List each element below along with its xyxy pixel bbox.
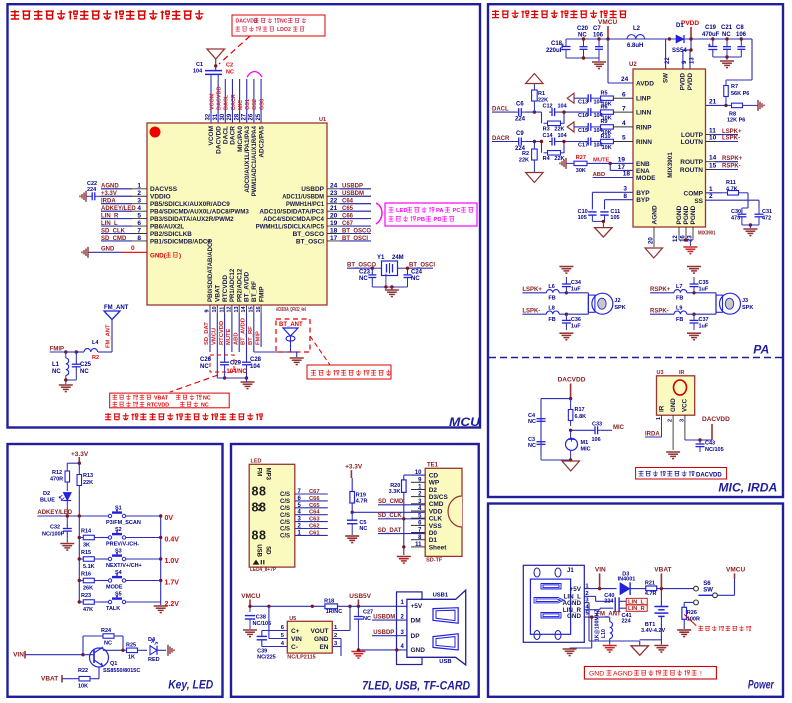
svg-text:R22: R22: [78, 668, 88, 674]
svg-text:J3: J3: [742, 298, 748, 304]
top net label OS3: [259, 99, 265, 110]
capacitor C37 1uF: [690, 314, 709, 330]
svg-text:ADC2/PA5: ADC2/PA5: [258, 126, 265, 158]
junction dots FMIP node: [64, 350, 78, 353]
svg-text:PB2/SDICLKB: PB2/SDICLKB: [150, 231, 192, 238]
PA chip U2 MIX3901 body: [633, 69, 706, 227]
svg-text:32: 32: [206, 113, 212, 120]
svg-text:VIN: VIN: [13, 652, 24, 659]
U1 left pin 7 name PB2/SDICLKB: [150, 231, 192, 238]
boxed net label LIN_R: [626, 605, 647, 612]
top net label VCOM: [209, 93, 215, 110]
svg-text:C34: C34: [571, 280, 582, 286]
diode D3 IN4001: [618, 571, 636, 595]
AGND row wire: [584, 603, 639, 646]
svg-text:OS1: OS1: [245, 99, 251, 110]
svg-text:R9: R9: [601, 119, 608, 125]
TE1 pin 2 D3/CS: [411, 492, 449, 501]
svg-text:6: 6: [622, 91, 626, 98]
svg-text:Sheet: Sheet: [429, 544, 448, 551]
svg-text:7: 7: [137, 227, 141, 234]
svg-text:BT_OSCO: BT_OSCO: [342, 228, 371, 234]
svg-text:U3: U3: [657, 370, 664, 376]
svg-text:VIN: VIN: [595, 566, 606, 573]
svg-text:L1: L1: [52, 362, 60, 368]
U1 top pin 30 name DACL: [223, 126, 230, 144]
capacitor C13 104 LINP: [578, 94, 604, 105]
svg-text:24: 24: [621, 76, 629, 83]
capacitor C9 224: [515, 131, 526, 152]
label 7LED USB TF-CARD: [362, 681, 470, 693]
LED pin 5 net C65: [280, 503, 328, 512]
svg-text:1R/NC: 1R/NC: [326, 609, 343, 615]
resistor R9 10K: [594, 119, 614, 136]
VMCU rail wire: [248, 605, 325, 608]
svg-text:AVDD: AVDD: [636, 81, 654, 88]
section box 7LED USB TF-CARD: [231, 444, 479, 697]
svg-text:NC: NC: [80, 369, 89, 375]
USB label bottom: [439, 659, 451, 665]
LED pin 2 net C62: [280, 524, 328, 533]
svg-text:RSPK+: RSPK+: [722, 156, 743, 162]
svg-text:1: 1: [656, 417, 662, 420]
capacitor C43 NC/105: [673, 440, 724, 453]
TE1 pin 9 WP: [411, 477, 440, 486]
svg-text:AGND: AGND: [101, 184, 119, 190]
svg-text:1uF: 1uF: [571, 324, 581, 330]
svg-text:3: 3: [137, 198, 141, 205]
U1 top pin 26 number: [249, 113, 255, 120]
sideways ground D4: [168, 645, 174, 656]
wire pin9 SD_DAT down: [209, 313, 211, 352]
svg-text:VDDIO: VDDIO: [150, 194, 171, 201]
U1 bottom pin 15 name BT_RF: [251, 281, 258, 302]
svg-text:VCOM: VCOM: [209, 93, 215, 110]
J1 refdes: [567, 568, 574, 574]
U2 vertical chip name MIX3901: [667, 152, 674, 178]
U1 top pin 27 name ADC0/AUX1L/PA1/PA3: [244, 126, 251, 193]
svg-text:224: 224: [604, 599, 614, 605]
U2 pin 15 ROUTN / net RSPK-: [680, 163, 741, 175]
svg-text:PD: PD: [434, 217, 442, 223]
svg-text:C36: C36: [571, 317, 581, 323]
net flag USB5V: [349, 593, 371, 608]
top wire vertical net OS3: [260, 79, 262, 123]
svg-text:15: 15: [249, 306, 255, 312]
svg-text:11: 11: [219, 307, 225, 313]
svg-text:NC: NC: [104, 641, 112, 647]
note box DACVDD capacitor NC: [232, 15, 325, 36]
svg-text:R5: R5: [601, 91, 608, 97]
svg-text:): ): [179, 253, 181, 260]
svg-text:MP3: MP3: [264, 468, 270, 481]
svg-text:1.0V: 1.0V: [165, 558, 180, 565]
U1 right pin 19 name PWMH1L/SDICLKA/PC5: [256, 223, 325, 230]
LED D4 RED: [141, 637, 166, 663]
svg-text:12: 12: [227, 306, 233, 312]
svg-text:BT_AVDD: BT_AVDD: [241, 318, 247, 345]
junction +3.3V key: [78, 462, 81, 465]
U3 pin names IR GND VCC: [659, 398, 689, 412]
junction dots crystal: [371, 267, 410, 270]
capacitor C11 105: [600, 209, 620, 221]
svg-text:R26: R26: [687, 610, 697, 616]
U1 left pin 5 name PB3/SDIDATA/AUX2R/PWM2: [150, 216, 234, 223]
junction after C12: [558, 110, 586, 113]
svg-text:RTCVDD: RTCVDD: [219, 321, 225, 345]
LED display 7seg digits row2: [252, 501, 267, 515]
U2 pin 1 COMP resistor R11 4.7K: [684, 180, 749, 197]
net label IRDA: [645, 432, 662, 438]
svg-text:R17: R17: [575, 407, 585, 413]
svg-text:R24: R24: [101, 628, 112, 634]
voltage label 1.0V: [165, 558, 180, 565]
svg-text:R21: R21: [645, 581, 655, 587]
left branch wire to R12: [67, 463, 79, 467]
wire left branch: [541, 399, 571, 455]
svg-text:R12: R12: [52, 470, 62, 476]
svg-text:31: 31: [213, 113, 219, 120]
capacitor C1 104 C2 NC: [193, 62, 234, 80]
svg-text:LED: LED: [251, 459, 262, 465]
USB1 pin names: [411, 603, 426, 654]
U1 right pin 23 wire / net USBDM: [327, 190, 371, 197]
ground BT1: [654, 646, 668, 653]
resistor R23 47K: [79, 593, 108, 613]
capacitor C6 224: [515, 102, 526, 123]
U5 pin names: [291, 628, 329, 651]
speaker J3 SPK: [694, 293, 753, 314]
USB1 refdes: [433, 593, 449, 599]
svg-text:0V: 0V: [165, 515, 174, 522]
U1 right pin 19 wire / net C67: [327, 220, 371, 227]
resistor R6 10K: [594, 105, 614, 122]
capacitor C39 labels: [257, 649, 276, 661]
svg-text:PB6/AUX2L: PB6/AUX2L: [150, 223, 184, 230]
svg-text:3.3K: 3.3K: [389, 489, 401, 495]
svg-text:R14: R14: [81, 529, 92, 535]
switch S1 P3/FM_SCAN: [106, 506, 161, 527]
net flag PVDD top PA: [681, 20, 699, 39]
svg-text:NC: NC: [226, 70, 234, 76]
svg-text:1uF: 1uF: [699, 287, 709, 293]
svg-text:LIN_R: LIN_R: [628, 606, 646, 612]
svg-text:AC6926A_QFN32_4x4: AC6926A_QFN32_4x4: [276, 307, 306, 313]
svg-text:CMD: CMD: [429, 501, 444, 508]
svg-text:NC: NC: [280, 19, 288, 25]
svg-text:C35: C35: [699, 280, 709, 286]
capacitor C22 on +3.3V: [87, 181, 101, 200]
COMP node down: [742, 193, 748, 208]
U1 bottom pin 10 name VBAT: [215, 285, 222, 302]
U2 pin 2 SS wire: [694, 193, 759, 208]
svg-text:+3.3V: +3.3V: [101, 191, 117, 197]
svg-text:PB0/SDIDATAB/ADC5: PB0/SDIDATAB/ADC5: [207, 239, 214, 302]
J1 slot bottom: [541, 613, 561, 619]
U2 pin 19 ENB: [618, 157, 650, 168]
svg-text:R7: R7: [731, 84, 738, 90]
svg-text:12: 12: [673, 235, 679, 242]
LED display FM MP3 vertical: [256, 468, 271, 481]
svg-text:C/S: C/S: [280, 534, 290, 540]
svg-text:11: 11: [415, 542, 422, 548]
capacitor C20 NC: [577, 26, 589, 58]
inductor L7 FB: [674, 284, 694, 302]
net label SD_CLK wire: [378, 513, 426, 519]
svg-text:ADC0/AUX1L/PA1/PA3: ADC0/AUX1L/PA1/PA3: [244, 126, 251, 193]
svg-text:20: 20: [330, 212, 338, 219]
svg-text:OS2: OS2: [252, 99, 258, 110]
PA section red title: gongfang duan wuliao genju shiji dianlu qu jingjian: [492, 10, 626, 18]
U1 refdes: [319, 117, 326, 123]
resistor R15 5.1K: [79, 550, 108, 570]
svg-text:AGND: AGND: [562, 600, 581, 607]
svg-text:Q1: Q1: [110, 661, 117, 667]
J1 pin numbers: [585, 583, 589, 616]
resistor R2 22K vertical below: [519, 142, 537, 173]
LED pin 3 net C63: [280, 517, 328, 526]
U1 top pin 32 number: [206, 113, 212, 120]
svg-text:RSPK+: RSPK+: [650, 287, 671, 293]
junction after C14: [540, 140, 586, 143]
svg-text:C1: C1: [196, 62, 203, 68]
svg-text:1uF: 1uF: [571, 287, 581, 293]
svg-text:PB5/SDICLK/AUX0R/ADC9: PB5/SDICLK/AUX0R/ADC9: [150, 201, 230, 208]
svg-text:IRDA: IRDA: [101, 199, 116, 205]
capacitor C30 473: [731, 208, 746, 225]
svg-text:LDO2: LDO2: [277, 27, 291, 33]
U1 top pin 26 name PWM1/ADC1/AUX1R/PA4: [251, 126, 258, 197]
wire USBDP row: [372, 635, 407, 637]
svg-text:MIC, IRDA: MIC, IRDA: [718, 483, 777, 495]
U2 pin 17 ENA: [636, 168, 650, 175]
net label BT_OSCI right: [408, 262, 436, 268]
resistor R26 100R: [682, 607, 700, 629]
U1 pin 8 wire / net SD_CMD: [101, 235, 147, 242]
svg-text:PGND: PGND: [683, 205, 690, 224]
svg-text:224: 224: [622, 619, 632, 625]
wire USB GND row to C27 ground: [357, 648, 407, 651]
svg-text:C38: C38: [256, 614, 266, 620]
red bold bottom note: jiema ban fangan anjian...: [105, 413, 262, 420]
svg-text:LED4_8+7P: LED4_8+7P: [250, 567, 276, 573]
GND drop to J1 ground: [570, 617, 592, 648]
wire pin16 FMIP down: [260, 313, 262, 347]
svg-text:3: 3: [679, 419, 685, 422]
svg-text:COMP: COMP: [684, 190, 704, 197]
net flag VMCU 7led: [241, 593, 260, 606]
U1 bottom pin 11 stub / net RTCVDD: [219, 305, 225, 313]
svg-text:SPK: SPK: [742, 305, 753, 311]
svg-text:SD_DAT: SD_DAT: [378, 528, 402, 534]
svg-text:DACVDD: DACVDD: [215, 126, 222, 154]
red dashed pointer to BT note: [310, 336, 330, 365]
svg-text:C26: C26: [200, 357, 212, 363]
BT_ANT label: [279, 322, 303, 328]
svg-text:VMCU: VMCU: [241, 593, 260, 600]
svg-text:DP: DP: [411, 633, 421, 640]
svg-text:PB3/SDIDATA/AUX2R/PWM2: PB3/SDIDATA/AUX2R/PWM2: [150, 216, 234, 223]
svg-text:C+: C+: [291, 628, 300, 635]
svg-text:4: 4: [622, 120, 626, 127]
svg-text:GND: GND: [411, 647, 426, 654]
resistor R4 22K bridge below: [542, 142, 565, 163]
svg-text:Y1: Y1: [377, 255, 385, 261]
svg-text:C65: C65: [342, 206, 354, 212]
svg-text:4.7R: 4.7R: [356, 498, 368, 504]
svg-text:USBDM: USBDM: [342, 191, 364, 197]
LED pin 1 net C61: [280, 530, 328, 539]
speaker J2 SPK: [566, 293, 625, 314]
FM_ANT vertical red label: [106, 324, 112, 348]
svg-text:5.1K: 5.1K: [83, 564, 95, 570]
switch S3 NEXT/V+/CH+: [106, 549, 161, 570]
svg-text:RED: RED: [148, 657, 160, 663]
svg-text:C28: C28: [250, 357, 262, 363]
svg-text:VIN: VIN: [291, 636, 302, 643]
ground L10: [603, 646, 617, 653]
svg-text:ENA: ENA: [636, 168, 650, 175]
note box bluetooth antenna: [307, 365, 391, 379]
svg-text:30: 30: [220, 113, 226, 120]
svg-text:GND(: GND(: [150, 253, 167, 260]
svg-text:C66: C66: [309, 496, 320, 502]
svg-text:17: 17: [330, 235, 338, 242]
resistor R20 3.3K pullup: [389, 475, 426, 495]
bottom vertical net label RTCVDD: [219, 321, 225, 345]
mic ground node: [541, 450, 572, 461]
section box Key LED: [8, 444, 223, 697]
section box Power: [488, 504, 783, 697]
net label MUTE on ENB wire: [589, 158, 633, 166]
bottom vertical net label VMCU: [212, 328, 218, 345]
svg-text:104: 104: [558, 133, 568, 139]
capacitor C33 106 to MIC: [571, 422, 602, 444]
U1 pin 6 wire / net LIN_L: [101, 220, 147, 227]
svg-text:224: 224: [87, 187, 97, 193]
LED display part label: [250, 567, 276, 573]
svg-text:1K: 1K: [128, 655, 135, 661]
svg-text:NC/100P: NC/100P: [42, 532, 65, 538]
TE1 part label SD-TF: [426, 558, 443, 564]
svg-text:VOUT: VOUT: [310, 628, 328, 635]
svg-text:6.8K: 6.8K: [575, 414, 587, 420]
svg-text:PWM1/ADC1/AUX1R/PA4: PWM1/ADC1/AUX1R/PA4: [251, 126, 258, 197]
svg-text:C31: C31: [762, 209, 772, 215]
svg-text:L10: L10: [601, 629, 607, 638]
wire pin10 VMCU down to C26: [216, 313, 218, 378]
wire switch to VMCU: [718, 578, 735, 596]
svg-text:DACVDD: DACVDD: [216, 86, 222, 110]
svg-text:C62: C62: [309, 524, 320, 530]
capacitor C29 104/NC label: [226, 361, 247, 375]
svg-text:DACVDD: DACVDD: [236, 19, 258, 25]
TE1 pin 4 VDD: [411, 506, 443, 515]
capacitor C21 NC: [721, 25, 733, 57]
ground J1: [563, 649, 577, 656]
svg-text:C32: C32: [50, 525, 60, 531]
voltage label 2.2V: [165, 601, 180, 608]
rail triangle above R1: [526, 74, 544, 84]
TE1 pin 7 D0: [411, 528, 437, 537]
svg-text:LSPK+: LSPK+: [722, 129, 742, 135]
ground C32: [60, 544, 74, 551]
inductor L10 1K@100MHZ: [595, 609, 613, 645]
svg-text:RSPK-: RSPK-: [722, 164, 741, 170]
resistor R19 4.7R: [350, 492, 368, 513]
svg-text:106: 106: [592, 437, 601, 443]
svg-text:FM_ANT: FM_ANT: [106, 324, 112, 348]
U3 GND ground: [666, 452, 680, 459]
svg-text:19: 19: [618, 157, 626, 164]
U2 pins 12 16 23 PGND: [673, 205, 697, 246]
svg-text:C15: C15: [578, 128, 588, 134]
red pointer discharge: [684, 614, 696, 625]
U1 top pin 25 number: [256, 113, 262, 120]
U2 pin 24 AVDD wire from VMCU: [608, 39, 654, 88]
svg-text:15: 15: [709, 163, 717, 170]
svg-text:VMCU: VMCU: [212, 328, 218, 345]
svg-text:S3: S3: [115, 549, 122, 555]
U1 right pin 24 wire / net USBDP: [327, 183, 371, 190]
svg-text:+3.3V: +3.3V: [345, 463, 363, 470]
resistor R24 NC bypass: [83, 628, 123, 655]
net flag VBAT: [654, 566, 671, 588]
capacitor C25 NC: [72, 352, 92, 380]
junction RSPK-: [692, 313, 695, 316]
svg-text:BT_ANT: BT_ANT: [279, 322, 303, 328]
svg-text:1: 1: [137, 183, 141, 190]
LED pin 7 net C67: [280, 489, 328, 498]
capacitor C34 1uF: [562, 277, 582, 293]
U2 pin 20 AGND: [648, 205, 658, 247]
svg-text:FM_ANT: FM_ANT: [104, 305, 129, 311]
U1 bottom pin 12 name PR1/ADC12: [229, 268, 236, 302]
svg-text:USBDM: USBDM: [373, 614, 395, 620]
svg-text:R15: R15: [81, 550, 91, 556]
svg-text:VMCU: VMCU: [726, 566, 745, 573]
wire to LINN pin 7: [613, 105, 651, 116]
svg-text:FM: FM: [256, 468, 262, 477]
svg-text:SD-TF: SD-TF: [426, 558, 443, 564]
svg-text:BYP: BYP: [636, 190, 650, 197]
svg-text:+5V: +5V: [570, 586, 582, 593]
svg-text:SW: SW: [663, 73, 670, 83]
svg-text:LSPK+: LSPK+: [522, 287, 542, 293]
svg-text:GND: GND: [589, 671, 604, 678]
svg-text:U1: U1: [319, 117, 326, 123]
svg-text:RINP: RINP: [636, 124, 652, 131]
U1 top pin 28 name MIC/PA0: [237, 126, 244, 152]
LED pin 6 net C66: [280, 496, 328, 505]
svg-text:21: 21: [330, 205, 338, 212]
svg-text:28: 28: [234, 113, 240, 120]
junction DACL node: [524, 110, 541, 113]
note box IR supply: [636, 468, 727, 480]
capacitor C18 220uF: [546, 39, 571, 58]
svg-text:ENB: ENB: [636, 161, 650, 168]
U1 bottom pin 13 name PR2/ADC12: [236, 268, 243, 302]
svg-text:220uF: 220uF: [546, 48, 564, 54]
wire +5V row to VIN: [584, 587, 616, 590]
svg-text:MIC/PA0: MIC/PA0: [237, 126, 244, 152]
R20 bottom vertical to CLK and Sheet: [402, 492, 405, 555]
microphone M1: [566, 430, 591, 452]
wire to RINN pin 5: [613, 135, 652, 146]
U1 left pin 1 name DACVSS: [150, 186, 178, 193]
wire PVDD rail down to FB divider: [726, 39, 752, 80]
svg-text:U2: U2: [629, 62, 637, 68]
